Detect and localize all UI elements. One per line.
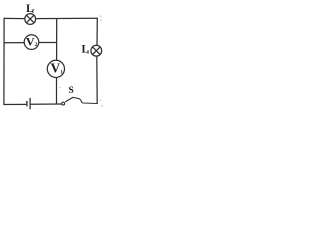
- wire top left (battery+ to lamp L2): [4, 17, 25, 19]
- scan noise specks: [60, 16, 103, 107]
- lamp L2: [25, 14, 36, 25]
- wire right edge upper: [96, 18, 98, 46]
- svg-text:S: S: [69, 86, 74, 96]
- battery short plate (negative): [26, 101, 28, 107]
- voltmeter V2: [24, 35, 39, 50]
- svg-text:2: 2: [31, 9, 34, 15]
- switch S blade (open): [65, 97, 73, 102]
- svg-text:V: V: [51, 60, 61, 75]
- switch S contact lead to bottom-right corner: [73, 97, 97, 103]
- svg-text:1: 1: [60, 70, 63, 76]
- switch S pivot: [62, 102, 65, 105]
- lamp L1: [91, 45, 102, 56]
- wire V2 branch right (V2 to middle vertical): [39, 42, 57, 44]
- wire right edge lower: [96, 56, 98, 104]
- wire top right (L2 to top-right corner): [36, 17, 98, 19]
- svg-text:2: 2: [35, 42, 38, 48]
- wire left edge: [3, 18, 5, 105]
- wire bottom left (corner to battery): [4, 103, 27, 105]
- voltmeter V1: [47, 60, 64, 77]
- battery long plate (positive): [29, 98, 31, 110]
- wire middle branch vertical lower (V1 to bottom wire): [56, 77, 58, 104]
- wire bottom mid (battery to switch pivot): [31, 103, 62, 105]
- wire V2 branch left (left edge to V2): [4, 42, 24, 44]
- wire middle branch vertical upper (top T to V2 branch to V1): [56, 18, 58, 60]
- svg-text:1: 1: [87, 49, 90, 55]
